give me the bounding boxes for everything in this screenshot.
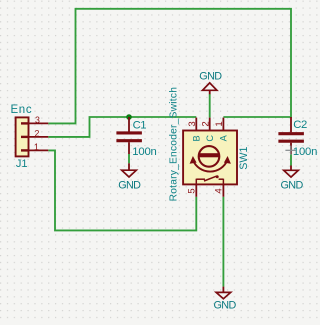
svg-text:1: 1	[34, 142, 39, 152]
ground below SW1 pin 4	[213, 287, 236, 312]
svg-text:C: C	[205, 135, 215, 142]
wire SW1.4 to GND	[222, 197, 224, 287]
wire net J1.1 to SW1.5	[48, 150, 196, 230]
J1 pin 1	[21, 142, 48, 152]
svg-text:3: 3	[187, 121, 198, 126]
svg-text:4: 4	[213, 188, 224, 194]
svg-text:2: 2	[201, 121, 212, 126]
svg-text:SW1: SW1	[238, 147, 250, 170]
SW1 shaft circle	[199, 146, 220, 167]
capacitor C2	[278, 117, 304, 154]
svg-text:Enc: Enc	[10, 104, 32, 116]
SW1 pin 3 stub	[187, 118, 198, 131]
wire C1 bottom to GND	[128, 154, 130, 163]
svg-text:J1: J1	[16, 158, 28, 170]
svg-text:100n: 100n	[293, 146, 317, 158]
ground below C1	[118, 163, 141, 191]
svg-text:C2: C2	[293, 119, 307, 131]
connector J1 body	[16, 117, 29, 156]
svg-text:A: A	[218, 134, 228, 141]
SW1 pin 1 stub	[214, 118, 225, 131]
svg-text:GND: GND	[280, 179, 303, 191]
svg-text:GND: GND	[213, 300, 236, 312]
svg-text:Rotary_Encoder_Switch: Rotary_Encoder_Switch	[169, 87, 180, 202]
svg-text:100n: 100n	[132, 146, 156, 158]
SW1 rotation arc arrows	[190, 156, 231, 172]
svg-text:C1: C1	[133, 120, 147, 132]
wire C2 bottom to GND	[290, 154, 292, 166]
svg-text:2: 2	[35, 128, 40, 138]
svg-text:GND: GND	[118, 179, 141, 191]
J1 pin 2	[21, 128, 48, 138]
wire net J1.3 to SW1.1 and C2 (top route)	[48, 9, 291, 124]
SW1 switch contacts (pins 5-4)	[196, 175, 223, 184]
junction at C1 top	[126, 114, 132, 120]
J1 pin 3	[21, 115, 48, 125]
SW1 pin 5 stub	[186, 184, 197, 196]
svg-text:1: 1	[214, 121, 225, 126]
ground above SW1 pin 2	[199, 70, 222, 94]
field anchor cross at C2 value	[285, 146, 295, 156]
wire net J1.2 to SW1.3 via C1	[48, 117, 196, 137]
SW1 shaft slot bar	[199, 153, 219, 157]
ground below C2	[280, 166, 303, 192]
capacitor C1	[116, 117, 141, 154]
svg-text:5: 5	[186, 188, 197, 193]
SW1 pin 4 stub	[213, 184, 224, 196]
wire GND to SW1.2	[209, 94, 211, 118]
svg-text:GND: GND	[199, 70, 222, 82]
svg-text:3: 3	[35, 115, 40, 125]
SW1 pin 2 stub	[201, 118, 212, 131]
rotary encoder SW1 body	[183, 131, 237, 185]
svg-text:B: B	[192, 135, 202, 141]
